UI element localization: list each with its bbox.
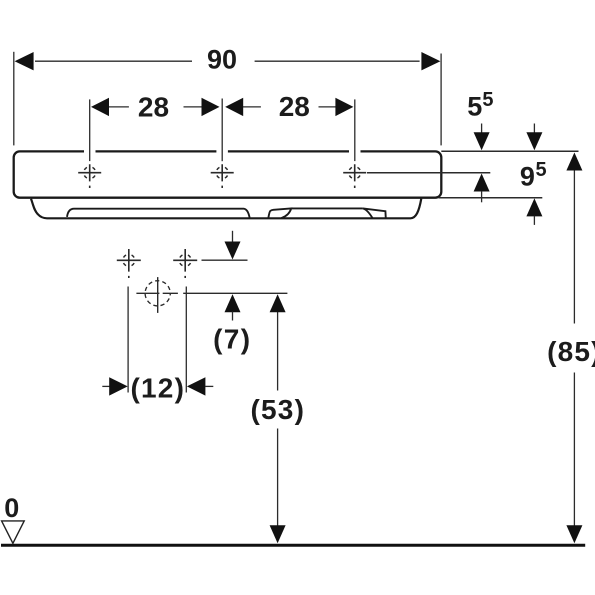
- reference line tap hole axis: [367, 172, 490, 174]
- arrowhead 28 center right-pointing: [202, 98, 220, 116]
- tap hole crosshair 2: [211, 164, 234, 188]
- arrowhead 85 top: [566, 153, 582, 171]
- dim 9-5 lower arrow: [526, 198, 542, 216]
- leader line fixing holes: [202, 259, 248, 261]
- extension line tap hole 2: [221, 99, 223, 162]
- extension line tap hole 1: [89, 99, 91, 161]
- svg-text:28: 28: [279, 91, 310, 122]
- dim 5-5 upper arrow: [481, 124, 483, 135]
- basin underside ledge left: [67, 209, 250, 218]
- arrowhead 90 right: [421, 52, 440, 70]
- extension line dim 12 right: [185, 287, 187, 393]
- svg-text:5: 5: [482, 89, 493, 111]
- svg-text:5: 5: [467, 91, 482, 121]
- arrowhead 90 left: [15, 52, 34, 70]
- arrowhead 12 right: [187, 377, 206, 395]
- basin body outline: [14, 151, 442, 197]
- dim 7 lower arrow: [225, 294, 241, 312]
- svg-text:0: 0: [4, 493, 19, 523]
- reference line drain axis: [136, 292, 287, 294]
- svg-text:28: 28: [138, 92, 169, 123]
- arrowhead 53 top: [270, 294, 286, 312]
- svg-text:9: 9: [520, 161, 535, 191]
- floor line: [1, 544, 585, 547]
- svg-text:(12): (12): [131, 372, 186, 403]
- dimension line 85: [573, 170, 575, 526]
- svg-text:(53): (53): [251, 394, 306, 425]
- svg-text:5: 5: [536, 159, 547, 181]
- dimension line 28 first: [108, 106, 203, 108]
- arrowhead 85 bottom: [566, 525, 582, 543]
- tap hole crosshair 3: [343, 164, 366, 188]
- basin underside foot B: [363, 208, 386, 218]
- extension line right of dim 90: [440, 54, 442, 146]
- extension line left of dim 90: [13, 52, 15, 146]
- dim 12 right tail: [205, 385, 213, 387]
- dimension line 53: [277, 312, 279, 527]
- drain crosshair dashed circle: [145, 281, 170, 306]
- reference line top edge: [441, 150, 578, 152]
- extension line tap hole 3: [354, 99, 356, 161]
- basin underside ledge middle: [291, 207, 363, 209]
- arrowhead 53 bottom: [270, 525, 286, 543]
- drain crosshair vertical axis: [157, 277, 159, 313]
- arrowhead 28 center left-pointing: [225, 98, 243, 116]
- dim 9-5 upper arrow: [533, 124, 535, 135]
- dim 5-5 lower arrow: [474, 174, 490, 192]
- svg-text:90: 90: [207, 44, 237, 74]
- svg-text:(85): (85): [547, 336, 595, 367]
- datum triangle: [2, 521, 25, 543]
- basin underside foot A: [268, 208, 291, 218]
- dimension line 28 second: [243, 106, 338, 108]
- tap hole crosshair 1: [78, 164, 101, 188]
- dim 12 left tail: [102, 385, 110, 387]
- extension line dim 12 left: [127, 287, 129, 393]
- dimension line 90: [35, 60, 420, 62]
- small crosshair 5: [173, 249, 197, 278]
- dim 7 upper arrow: [232, 231, 234, 242]
- arrowhead 12 left: [109, 377, 128, 395]
- small crosshair 4: [117, 249, 141, 278]
- svg-text:(7): (7): [213, 324, 251, 355]
- reference line bottom edge: [439, 197, 543, 199]
- arrowhead 28 far right: [335, 98, 353, 116]
- arrowhead 28 far left: [91, 98, 109, 116]
- basin underside outer outline: [31, 199, 421, 219]
